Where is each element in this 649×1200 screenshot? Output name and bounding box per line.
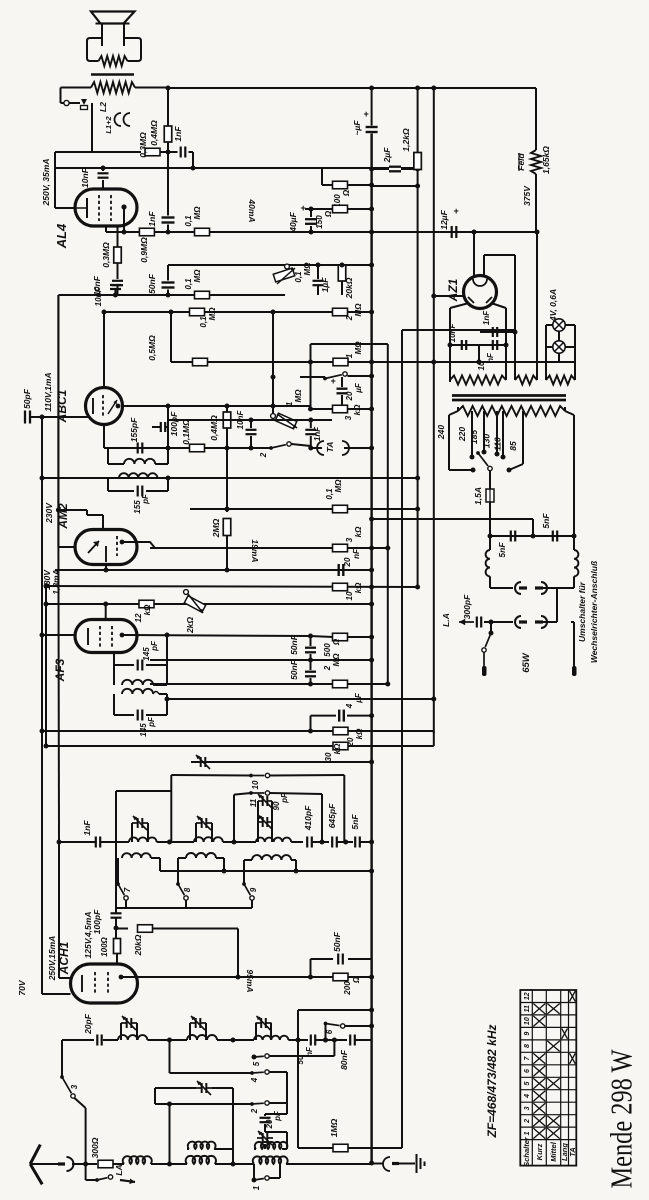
wire bottom to connector	[372, 1163, 383, 1165]
capacitor 50nF row2	[310, 1035, 312, 1046]
svg-text:+: +	[453, 206, 459, 216]
capacitor 4&#181;F	[311, 715, 337, 717]
svg-text:4: 4	[524, 1094, 531, 1099]
connector bottom arc	[383, 1157, 390, 1171]
wire AZ1 filament right	[491, 303, 506, 308]
node y265 at bus	[369, 263, 374, 268]
wire row1 c	[223, 841, 256, 843]
capacitor 300pF	[476, 617, 478, 628]
svg-text:0,3MΩ: 0,3MΩ	[138, 132, 148, 158]
wire x59 to ACH1	[57, 547, 60, 842]
svg-text:AZ1: AZ1	[446, 278, 460, 302]
lamp 4V upper	[553, 319, 565, 331]
resistor 2M&#937; y312	[333, 308, 348, 316]
wire x46 screen vertical	[45, 586, 47, 746]
switch 65W	[490, 622, 492, 633]
capacitor 20&#181;F electrolytic	[341, 377, 343, 387]
ground symbol	[416, 1154, 418, 1173]
resistor 300&#937;	[98, 1160, 113, 1168]
capacitor 410pF	[306, 837, 308, 848]
node x116 y928	[114, 926, 119, 931]
trimmer row1-3	[257, 822, 259, 842]
coil row1s-2	[178, 857, 186, 859]
svg-text:~µF: ~µF	[352, 120, 362, 136]
coil row3s-2	[188, 1142, 216, 1149]
svg-text:2MΩ: 2MΩ	[211, 518, 221, 538]
svg-text:4: 4	[250, 1077, 259, 1083]
rail row1 y842	[59, 841, 95, 843]
capacitor 1nF row1	[95, 837, 97, 848]
trimmer row3	[257, 1137, 263, 1139]
resistor 0,1M&#937; y312	[190, 308, 205, 316]
wire crossover	[543, 587, 574, 589]
svg-text:Wechselrichter-Anschluß: Wechselrichter-Anschluß	[589, 561, 599, 663]
coil row2-3	[254, 1036, 288, 1040]
svg-text:1nF: 1nF	[82, 820, 92, 836]
wire AF3 plate rail y636	[122, 635, 311, 636]
coil L1+2 arcs	[115, 113, 122, 126]
wire x387 descender	[387, 344, 389, 684]
rail HT y152	[55, 151, 141, 153]
svg-text:250V, 35mA: 250V, 35mA	[41, 159, 51, 207]
rail y570	[55, 569, 372, 571]
svg-text:65W: 65W	[521, 652, 532, 673]
tap 130	[496, 411, 498, 454]
svg-text:130: 130	[482, 434, 492, 448]
capacitor 20nF	[338, 564, 340, 576]
wire right plug down	[571, 621, 574, 623]
wire y332 cap row	[480, 331, 515, 333]
wire AM2 grid feed	[58, 509, 87, 511]
svg-text:Mittel: Mittel	[549, 1141, 558, 1161]
capacitor 50nF on stub	[167, 265, 169, 281]
coil row2-1	[118, 1035, 147, 1040]
svg-text:0,4MΩ: 0,4MΩ	[209, 415, 219, 441]
wire row1 a	[101, 841, 129, 843]
capacitor 10nF AL4 top	[102, 168, 104, 171]
svg-text:20kΩ: 20kΩ	[133, 934, 143, 956]
voltage selector switch	[476, 451, 480, 455]
capacitor 80nF	[349, 1035, 351, 1046]
wire TA row	[311, 447, 322, 449]
capacitor 2&#181;F	[372, 168, 389, 170]
resistor 20k&#937; osc	[116, 928, 128, 930]
wire riser x311	[310, 716, 312, 731]
resistor 3k&#937;	[333, 405, 348, 413]
svg-text:3: 3	[524, 1106, 531, 1110]
switch 2	[269, 446, 273, 450]
transformer primary tapped winding	[457, 407, 459, 411]
trimmer row2-3	[255, 1023, 257, 1040]
rail y330 filament	[402, 329, 515, 331]
svg-text:410pF: 410pF	[303, 805, 313, 831]
svg-text:50nF: 50nF	[289, 659, 299, 680]
svg-text:50nF: 50nF	[147, 273, 157, 294]
rail y344	[311, 343, 388, 345]
IF loop2 bottom	[107, 478, 109, 491]
rail y660	[150, 659, 372, 661]
wire lamp col right	[574, 325, 576, 362]
switch 8	[176, 882, 180, 886]
wire row3 a	[113, 1163, 124, 1165]
resistor 200&#937;	[333, 973, 348, 981]
wire ABC1 plate rail y406	[122, 405, 311, 407]
svg-text:L1+2: L1+2	[104, 116, 113, 134]
svg-text:1µF: 1µF	[320, 277, 330, 293]
wire row1 end	[360, 841, 372, 843]
rail y362	[171, 361, 575, 363]
wire AZ1 filament left	[450, 303, 469, 308]
wire AZ1 second anode	[483, 255, 485, 277]
svg-text:40µF: 40µF	[288, 211, 298, 232]
svg-text:1nF: 1nF	[482, 310, 491, 325]
capacitor 155pF IF2	[137, 486, 139, 497]
wire row3 c	[215, 1163, 254, 1165]
capacitor 5nF row1	[354, 837, 356, 848]
wire row2 d	[288, 1039, 308, 1041]
wire ABC1 B+ feed x104	[103, 312, 105, 387]
switch 6	[325, 1024, 327, 1041]
svg-text:10nF: 10nF	[236, 410, 245, 430]
capacitor 1nF TA	[310, 420, 312, 428]
svg-text:+: +	[363, 109, 369, 119]
coil row1-3	[256, 838, 291, 842]
trimmer row2-1	[120, 1023, 122, 1040]
svg-text:10nF: 10nF	[80, 167, 90, 188]
svg-text:1nF: 1nF	[147, 211, 157, 227]
svg-text:20kΩ: 20kΩ	[344, 277, 354, 299]
svg-text:L.A: L.A	[441, 613, 451, 627]
svg-text:L2: L2	[98, 102, 108, 112]
terminal circle pickup	[61, 102, 65, 104]
speaker neck	[101, 24, 103, 47]
wire primary left lead 240	[449, 411, 458, 415]
svg-text:LA: LA	[114, 1164, 124, 1175]
wire ABC1 cathode down	[103, 425, 105, 449]
svg-text:1MΩ: 1MΩ	[329, 1118, 339, 1137]
transformer heater winding 3	[546, 376, 575, 385]
wire row1 b	[157, 841, 194, 843]
wire AVC vertical x42	[41, 417, 43, 994]
potentiometer 2k&#937;	[184, 590, 189, 595]
svg-text:6: 6	[524, 1069, 531, 1073]
svg-text:5: 5	[524, 1081, 531, 1085]
node y88 junctions	[369, 86, 374, 91]
node bottom rail B1	[369, 1161, 374, 1166]
tube AF3 envelope	[75, 620, 137, 653]
wire AM2 plate rail y548	[122, 541, 150, 543]
svg-text:645pF: 645pF	[327, 803, 337, 828]
svg-text:1,2kΩ: 1,2kΩ	[401, 128, 411, 152]
switch TA row y377	[300, 376, 325, 378]
svg-text:2µF: 2µF	[382, 147, 392, 164]
rail y409 3k	[311, 408, 372, 410]
svg-text:AF3: AF3	[53, 658, 67, 682]
svg-text:300Ω: 300Ω	[90, 1137, 100, 1158]
capacitor 645pF	[331, 837, 333, 848]
trimmer mid	[154, 1088, 156, 1104]
tube AM2 internals	[88, 541, 99, 553]
svg-text:85: 85	[508, 441, 518, 451]
rail y448 AF row	[104, 447, 271, 449]
resistor 1M&#937; bottom	[333, 1144, 348, 1152]
wire 50pF to ABC1 grid	[30, 416, 89, 418]
svg-text:155pF: 155pF	[129, 417, 139, 442]
svg-text:Mende 298 W: Mende 298 W	[604, 1049, 639, 1189]
trimmer row1-2	[195, 823, 197, 842]
coil row3-1	[123, 1156, 152, 1164]
arrow LA	[120, 1180, 135, 1182]
resistor 3k&#937; y548	[333, 544, 348, 552]
wire primary left lead	[75, 87, 91, 89]
wire AL4 grid	[55, 207, 75, 209]
capacitor 5nF right	[552, 531, 554, 542]
svg-text:0,1MΩ: 0,1MΩ	[181, 419, 191, 445]
coil row1-1	[129, 837, 157, 842]
tap 220	[471, 411, 473, 457]
IF transformer ABC1 loop1	[107, 448, 109, 464]
switch 4	[169, 1057, 171, 1073]
wire row1 d	[291, 841, 303, 843]
rail y587 10k	[46, 586, 418, 587]
svg-text:2kΩ: 2kΩ	[185, 617, 195, 634]
svg-text:375V: 375V	[522, 185, 532, 206]
resistor 20k&#937; vertical	[338, 265, 346, 281]
svg-text:8: 8	[183, 887, 192, 892]
resistor 0,3M&#937; vertical under AL4	[117, 225, 119, 247]
rail y908 switch bus	[116, 907, 252, 909]
tube AL4 internals	[86, 198, 88, 218]
resistor 0,4M&#937; vertical	[226, 406, 228, 412]
rail y509	[190, 508, 418, 510]
wire x273 riser	[272, 312, 274, 377]
svg-text:5: 5	[252, 1061, 261, 1066]
capacitor 5nF left	[510, 531, 512, 542]
rail y1010 to bus	[298, 1009, 372, 1011]
svg-text:4V, 0,6A: 4V, 0,6A	[548, 289, 558, 322]
svg-text:7: 7	[123, 887, 132, 892]
rail y746 30k	[46, 745, 333, 747]
connector TA	[317, 441, 324, 455]
wire fuse down	[489, 502, 491, 536]
rail y731 20k	[42, 730, 311, 732]
resistor 30k&#937; y746	[333, 742, 348, 750]
wire jack to divider	[91, 103, 93, 152]
bus B1 main	[370, 134, 372, 1164]
rail y420 branch	[168, 419, 332, 421]
wire row3 end	[286, 1163, 372, 1165]
svg-text:10: 10	[524, 1017, 531, 1025]
resistor 0,1M&#937; y509	[333, 505, 348, 513]
bus B5 bottom hook	[433, 731, 435, 746]
capacitor 10nF under AL4	[112, 280, 123, 282]
staple sw10	[171, 774, 251, 777]
svg-text:TA: TA	[568, 1147, 577, 1156]
loop 50nF anode	[310, 959, 312, 977]
coil row1s-1	[122, 853, 151, 858]
wire AZ1 filament verticals to transformer	[449, 345, 451, 380]
node primary/HT junction	[166, 86, 171, 91]
resistor 10k&#937;	[333, 583, 348, 591]
resistor 100&#937; osc vertical	[115, 928, 117, 938]
svg-text:+: +	[300, 203, 306, 213]
rail HT y88 long	[168, 87, 536, 89]
svg-text:0,3MΩ: 0,3MΩ	[101, 242, 111, 268]
rail y519 from left	[372, 518, 533, 520]
wire ACH1 grid from AVC	[42, 993, 71, 995]
trimmer row2-2	[189, 1023, 191, 1040]
node antenna junction	[72, 1163, 97, 1165]
wire AZ1 anode lead	[473, 232, 475, 277]
trimmer padder	[195, 761, 201, 763]
capacitor 20pF osc	[286, 1103, 288, 1114]
svg-text:0,4MΩ: 0,4MΩ	[149, 120, 159, 146]
wire plug lower left	[491, 621, 513, 623]
wire row2 e	[316, 1039, 347, 1041]
svg-text:Schalter: Schalter	[522, 1136, 531, 1167]
svg-text:Feld: Feld	[516, 152, 526, 170]
transformer core lines	[452, 394, 566, 397]
rail y312	[104, 311, 372, 313]
svg-text:11: 11	[524, 1005, 531, 1012]
wire row1 e	[312, 841, 329, 843]
vertical x55 AL4 feed	[54, 152, 56, 208]
svg-text:50nF: 50nF	[332, 931, 342, 952]
antenna LA arrow	[459, 621, 474, 623]
wire row2 end	[355, 1039, 372, 1041]
wire ACH1 plate rail y977	[121, 976, 372, 978]
resistor 12k&#937;	[139, 600, 154, 608]
lamp wires lower	[546, 346, 553, 348]
capacitor 100pF	[160, 422, 162, 432]
wire x298 vertical	[297, 1010, 299, 1148]
capacitor 10nF x115	[110, 284, 121, 286]
svg-text:1,5A: 1,5A	[473, 487, 483, 505]
capacitor 1nF AZ1	[492, 327, 494, 337]
svg-text:95mA: 95mA	[245, 969, 255, 992]
transformer heater winding 2	[514, 330, 516, 380]
svg-text:9: 9	[524, 1032, 531, 1036]
wire AM2 grid left	[58, 546, 75, 548]
svg-text:12: 12	[524, 992, 531, 1000]
coil row1s-3	[243, 860, 245, 884]
wire primary right lead	[565, 411, 574, 415]
wire AF3 grid left	[42, 634, 75, 636]
AF3 loop1 coil	[113, 665, 115, 685]
svg-text:1nF: 1nF	[313, 426, 322, 441]
wire AL4 anode down	[123, 207, 125, 232]
wire to 1nF	[160, 151, 178, 153]
svg-text:100Ω: 100Ω	[100, 936, 109, 956]
speaker magnet frame	[87, 38, 102, 61]
svg-text:ABC1: ABC1	[55, 389, 69, 423]
wire lamp bottom to rail	[558, 331, 560, 341]
switch 9	[242, 882, 246, 886]
svg-text:2: 2	[524, 1119, 531, 1124]
rail HT y168 long	[55, 167, 389, 169]
svg-text:70V: 70V	[17, 979, 27, 995]
capacitor 1nF	[180, 147, 182, 158]
staple sw11	[234, 793, 251, 795]
tube AM2 envelope	[75, 530, 137, 565]
svg-text:80nF: 80nF	[339, 1049, 349, 1070]
svg-text:10: 10	[251, 780, 260, 789]
table crosses	[533, 1128, 545, 1138]
resistor 20k&#937; y731	[333, 727, 348, 735]
svg-text:100pF: 100pF	[92, 909, 102, 934]
resistor 1M&#937; y362	[333, 358, 348, 366]
rail y684 2M	[150, 683, 311, 685]
coil choke right	[573, 536, 575, 550]
node grid terminal AF3	[103, 602, 108, 607]
tap 85	[522, 411, 524, 464]
tube ABC1 internals	[92, 398, 94, 414]
wire 1nF to rail junction	[189, 151, 194, 153]
output transformer core line	[91, 73, 134, 76]
trimmer row1-1	[131, 823, 133, 842]
trimmer 90pF	[257, 801, 259, 822]
tube ACH1 envelope	[71, 964, 138, 1003]
coil row1-2	[194, 837, 223, 842]
wire corner x58 down	[57, 295, 59, 547]
wire row2 c	[217, 1039, 254, 1041]
svg-text:1nF: 1nF	[173, 126, 183, 142]
speaker baffle line	[96, 23, 130, 25]
wire x310 riser	[310, 344, 312, 409]
resistor Feld 1,65k vertical zigzag	[535, 88, 537, 150]
resistor 0,9M&#937; on rail	[139, 228, 154, 236]
node y362 junction AZ1	[477, 360, 482, 365]
capacitor 50nF upper	[310, 636, 312, 646]
svg-text:Kurz: Kurz	[535, 1143, 544, 1160]
svg-text:110V,1mA: 110V,1mA	[43, 372, 53, 411]
coil row3-3	[253, 1156, 288, 1164]
output transformer primary winding	[91, 82, 135, 93]
coil row2-2	[187, 1035, 217, 1040]
resistor 2M&#937; vertical x228	[226, 448, 228, 509]
switch LA	[85, 1164, 87, 1180]
node loop2/y499	[166, 476, 171, 481]
capacitor 40&#181;F electrolytic	[310, 209, 312, 217]
wire row2 a	[103, 1039, 118, 1041]
svg-text:1: 1	[524, 1131, 531, 1135]
resistor 1,2k&#937; on B4	[417, 88, 419, 152]
svg-text:5nF: 5nF	[541, 513, 551, 529]
capacitor 50pF antenna	[24, 411, 26, 424]
wire x168 drop	[167, 406, 169, 448]
svg-text:0,9MΩ: 0,9MΩ	[139, 237, 149, 263]
bus B4 x417	[417, 186, 419, 589]
svg-text:11: 11	[249, 798, 258, 807]
wire 100ohm left stub	[321, 168, 323, 185]
capacitor 50nF lower	[310, 660, 312, 670]
rail y762 trimmer	[191, 761, 372, 763]
speaker LS horn	[91, 12, 135, 24]
wire x171 riser	[170, 312, 172, 362]
resistor 0,1M&#937; y295	[195, 291, 210, 299]
antenna symbol	[30, 1145, 40, 1164]
capacitor 20pF	[96, 1035, 98, 1046]
wire primary right lead to HT rail	[135, 87, 168, 89]
svg-text:19mA: 19mA	[250, 539, 260, 562]
svg-text:2: 2	[250, 1108, 259, 1114]
node y232 junctions	[122, 230, 127, 235]
switch 2 osc	[155, 1103, 252, 1105]
capacitor 10nF AZ1	[461, 340, 463, 350]
switch 5	[169, 1040, 171, 1057]
wire AL4 cathode down	[105, 226, 107, 232]
svg-text:9: 9	[249, 887, 258, 892]
